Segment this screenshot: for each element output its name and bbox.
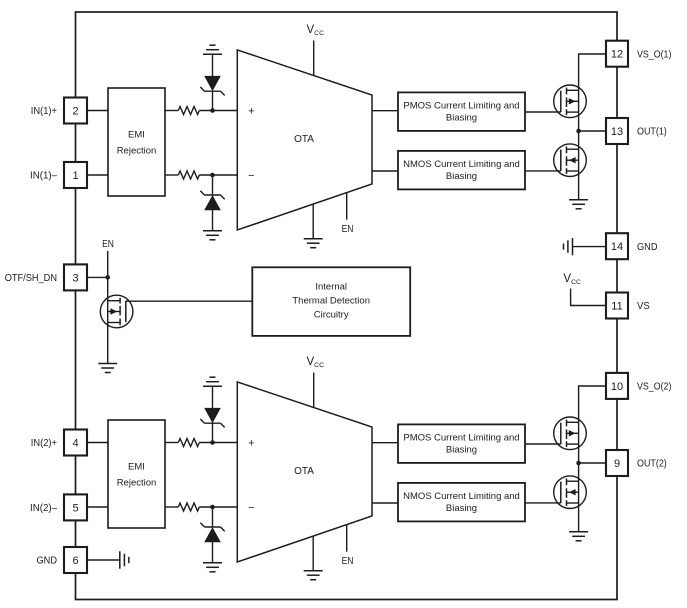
wire clamp diode 2a to ground: [212, 386, 214, 408]
svg-text:OTF/SH_DN: OTF/SH_DN: [5, 273, 57, 284]
Internal Thermal Detection Circuitry block: [252, 267, 410, 336]
wire pin IN(2)- to EMI Rejection 2: [87, 506, 108, 508]
svg-text:12: 12: [611, 49, 623, 61]
svg-text:VS: VS: [637, 301, 650, 312]
svg-text:EN: EN: [102, 239, 114, 250]
svg-text:IN(2)–: IN(2)–: [30, 503, 57, 514]
wire VS_O(2) pin to PFET source: [579, 386, 606, 532]
wire ground to pin 14: [573, 246, 607, 248]
wire OTA1 to ground: [312, 204, 314, 239]
svg-text:IN(1)+: IN(1)+: [31, 106, 57, 117]
ground (above clamp diode 1a, inverted): [203, 45, 222, 54]
wire NMOS block 2 to output NFET gate: [525, 502, 561, 504]
svg-text:9: 9: [614, 458, 620, 470]
zener clamp diode 2b (OTA2 - input): [200, 523, 224, 542]
svg-text:GND: GND: [37, 556, 58, 567]
svg-text:OUT(1): OUT(1): [637, 127, 667, 138]
svg-text:2: 2: [72, 105, 78, 117]
ground (below shutdown FET): [98, 364, 117, 373]
pin 3 box: [64, 264, 87, 290]
svg-text:Thermal Detection: Thermal Detection: [292, 296, 370, 307]
svg-text:Biasing: Biasing: [446, 445, 477, 456]
svg-text:Internal: Internal: [315, 282, 347, 293]
wire clamp diode 2b to ground: [212, 542, 214, 563]
node OUT(1) junction: [576, 129, 581, 134]
svg-text:Rejection: Rejection: [117, 478, 157, 489]
op-amp OTA2: [237, 382, 372, 562]
node OTA1 - input junction: [210, 173, 215, 178]
pin 4 box: [64, 430, 87, 456]
wire EMI 2 to + input: [165, 442, 178, 444]
svg-text:Biasing: Biasing: [446, 503, 477, 514]
wire shutdown FET gate to thermal detection block: [126, 300, 253, 302]
node EN junction: [105, 275, 110, 280]
wire OTA1 EN pin: [346, 193, 348, 220]
ground (GND pin 14, sideways): [564, 238, 573, 255]
wire pin IN(1)+ to EMI Rejection 1: [87, 110, 108, 112]
svg-text:13: 13: [611, 126, 623, 138]
wire clamp diode 1a to ground: [212, 54, 214, 76]
wire EMI 1 to - input: [165, 174, 178, 176]
svg-text:NMOS Current Limiting and: NMOS Current Limiting and: [403, 491, 520, 502]
svg-text:Circuitry: Circuitry: [314, 309, 349, 320]
svg-text:VS_O(2): VS_O(2): [637, 382, 671, 393]
wire clamp diode 1b to ground: [212, 210, 214, 231]
ground (below clamp diode 1b): [203, 231, 222, 240]
resistor (OTA1 + input series): [178, 107, 199, 115]
wire NMOS block 1 to output NFET gate: [525, 170, 561, 172]
svg-text:Biasing: Biasing: [446, 171, 477, 182]
wire VCC to OTA2: [313, 373, 315, 408]
ground (pin 6, sideways): [120, 551, 129, 568]
wire OTA2 EN pin: [346, 525, 348, 552]
ground (output stage channel 1): [569, 200, 588, 209]
svg-text:+: +: [248, 106, 254, 118]
svg-text:EMI: EMI: [128, 130, 145, 141]
node OUT(2) junction: [576, 461, 581, 466]
zener clamp diode 1a (OTA1 + input): [200, 76, 224, 95]
svg-text:OTA: OTA: [294, 466, 314, 477]
NMOS Current Limiting and Biasing block 1: [398, 151, 525, 190]
op-amp OTA1: [237, 50, 372, 230]
pin 12 box: [606, 41, 628, 67]
svg-text:Rejection: Rejection: [117, 146, 157, 157]
ground (output stage channel 2): [569, 532, 588, 541]
output NFET Q1b (N-channel, channel 1): [554, 144, 587, 177]
ground (below clamp diode 2b): [203, 563, 222, 572]
svg-text:−: −: [248, 502, 254, 514]
IC package boundary: [76, 12, 618, 600]
wire junction to OUT(1) pin: [579, 130, 606, 132]
EMI Rejection block 1: [108, 88, 165, 196]
wire pin IN(2)+ to EMI Rejection 2: [87, 442, 108, 444]
svg-text:3: 3: [72, 272, 78, 284]
wire OTA2 to ground: [312, 536, 314, 571]
svg-text:10: 10: [611, 381, 623, 393]
svg-text:OTA: OTA: [294, 134, 314, 145]
NMOS Current Limiting and Biasing block 2: [398, 483, 525, 522]
svg-text:+: +: [248, 438, 254, 450]
svg-text:PMOS Current Limiting and: PMOS Current Limiting and: [403, 433, 519, 444]
wire VS_O(1) pin to PFET source: [579, 54, 606, 200]
output PFET Q2a (P-channel, channel 2): [554, 417, 587, 450]
svg-text:−: −: [248, 170, 254, 182]
node OTA2 - input junction: [210, 505, 215, 510]
wire resistor to OTA2 - input: [199, 506, 237, 508]
svg-text:OUT(2): OUT(2): [637, 459, 667, 470]
wire - input junction to clamp diode 1b: [212, 175, 214, 195]
pin 5 box: [64, 494, 87, 520]
svg-text:EN: EN: [342, 556, 354, 567]
pin 10 box: [606, 373, 628, 399]
pin 11 box: [606, 293, 628, 319]
wire resistor to OTA2 + input: [199, 442, 237, 444]
wire pin 6 to ground: [87, 559, 120, 561]
wire OTA1 to PMOS block 1: [372, 110, 398, 112]
wire + input junction to clamp diode 2a: [212, 423, 214, 442]
ground (OTA2): [304, 571, 323, 580]
wire + input junction to clamp diode 1a: [212, 91, 214, 110]
ground (above clamp diode 2a, inverted): [203, 377, 222, 386]
svg-text:IN(1)–: IN(1)–: [30, 171, 57, 182]
svg-text:VS_O(1): VS_O(1): [637, 49, 671, 60]
svg-text:EMI: EMI: [128, 462, 145, 473]
ground (OTA1): [304, 239, 323, 248]
resistor (OTA2 - input series): [178, 503, 199, 511]
shutdown FET Q5 (thermal/EN): [100, 295, 133, 328]
output NFET Q2b (N-channel, channel 2): [554, 476, 587, 509]
svg-text:EN: EN: [342, 224, 354, 235]
wire junction to OUT(2) pin: [579, 462, 606, 464]
pin 6 box: [64, 547, 87, 573]
wire EMI 2 to - input: [165, 506, 178, 508]
svg-text:PMOS Current Limiting and: PMOS Current Limiting and: [403, 101, 519, 112]
wire PMOS block 2 to output PFET gate: [525, 443, 561, 445]
output PFET Q1a (P-channel, channel 1): [554, 85, 587, 118]
node OTA1 + input junction: [210, 108, 215, 113]
pin 14 box: [606, 233, 628, 259]
svg-text:14: 14: [611, 241, 623, 253]
wire resistor to OTA1 + input: [199, 110, 237, 112]
svg-text:5: 5: [72, 502, 78, 514]
pin 2 box: [64, 98, 87, 124]
wire - input junction to clamp diode 2b: [212, 507, 214, 527]
wire VCC to pin 11: [571, 289, 606, 306]
zener clamp diode 2a (OTA2 + input): [200, 408, 224, 427]
EMI Rejection block 2: [108, 420, 165, 528]
PMOS Current Limiting and Biasing block 1: [398, 92, 525, 130]
svg-text:Biasing: Biasing: [446, 113, 477, 124]
pin 9 box: [606, 450, 628, 476]
svg-text:4: 4: [72, 437, 78, 449]
svg-text:IN(2)+: IN(2)+: [31, 438, 57, 449]
pin 13 box: [606, 118, 628, 144]
wire EMI 1 to + input: [165, 110, 178, 112]
svg-text:NMOS Current Limiting and: NMOS Current Limiting and: [403, 159, 520, 170]
wire pin IN(1)- to EMI Rejection 1: [87, 174, 108, 176]
wire EN node vertical: [107, 251, 109, 364]
node OTA2 + input junction: [210, 440, 215, 445]
wire resistor to OTA1 - input: [199, 174, 237, 176]
wire VCC to OTA1: [313, 41, 315, 76]
wire OTA1 to NMOS block 1: [372, 170, 398, 172]
wire OTA2 to NMOS block 2: [372, 502, 398, 504]
wire pin 3 to EN node: [87, 276, 108, 278]
wire PMOS block 1 to output PFET gate: [525, 111, 561, 113]
svg-text:6: 6: [72, 555, 78, 567]
svg-text:GND: GND: [637, 242, 658, 253]
wire OTA2 to PMOS block 2: [372, 442, 398, 444]
zener clamp diode 1b (OTA1 - input): [200, 191, 224, 210]
PMOS Current Limiting and Biasing block 2: [398, 424, 525, 463]
resistor (OTA2 + input series): [178, 439, 199, 447]
resistor (OTA1 - input series): [178, 171, 199, 179]
pin 1 box: [64, 162, 87, 188]
svg-text:11: 11: [611, 300, 622, 312]
svg-text:1: 1: [72, 170, 78, 182]
